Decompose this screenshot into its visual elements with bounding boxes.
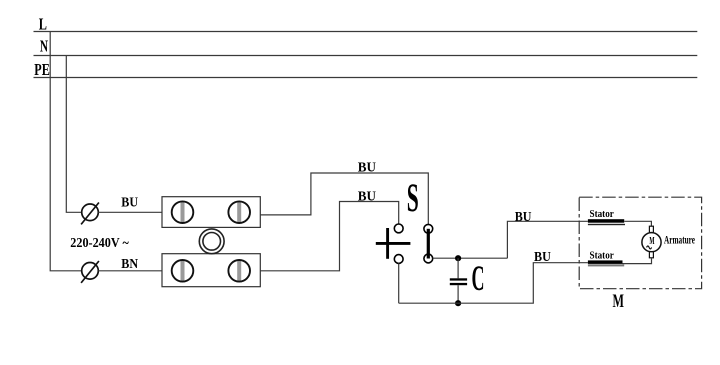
motor enclosure box	[579, 197, 701, 289]
wire coil1 to armature	[624, 221, 651, 226]
wire L to BN line	[50, 32, 81, 271]
svg-text:C: C	[472, 258, 485, 298]
switch right contacts with bridge	[424, 224, 433, 262]
wire pin to top block	[98, 211, 162, 213]
wire armature to coil2	[623, 258, 652, 264]
rail PE	[34, 60, 698, 79]
cord bushing (double circle)	[199, 229, 224, 254]
brush top	[649, 226, 653, 232]
junction node bottom	[455, 300, 461, 306]
svg-text:Stator: Stator	[590, 208, 614, 220]
svg-text:Armature: Armature	[664, 232, 695, 246]
svg-text:BN: BN	[121, 257, 138, 272]
svg-text:BU: BU	[358, 160, 376, 175]
armature motor circle	[642, 233, 661, 252]
svg-text:L: L	[39, 14, 47, 33]
svg-text:M: M	[613, 291, 625, 312]
wire pin to bottom block	[98, 270, 162, 272]
svg-text:220-240V ~: 220-240V ~	[70, 236, 129, 251]
svg-text:S: S	[407, 175, 419, 220]
svg-text:Stator: Stator	[590, 250, 614, 262]
svg-text:BU: BU	[534, 250, 551, 265]
wire bottom block to switch S left contact	[260, 202, 398, 271]
svg-text:N: N	[40, 37, 48, 56]
junction node top	[455, 255, 461, 261]
wire switch left contact down to bottom run	[398, 263, 400, 303]
svg-text:M: M	[649, 235, 655, 247]
rail L	[34, 14, 698, 33]
wire bottom run to stator 2	[399, 263, 588, 304]
terminal block top	[162, 197, 260, 228]
stator coil 1	[588, 219, 625, 225]
svg-text:BU: BU	[515, 210, 532, 225]
svg-text:PE: PE	[34, 60, 50, 79]
switch left contacts	[394, 224, 403, 263]
rail N	[34, 37, 698, 56]
stator coil 2	[588, 260, 624, 266]
brush bottom	[649, 252, 653, 258]
wire top block to switch S right contact	[260, 173, 428, 225]
switch actuator cross	[376, 228, 411, 259]
wire N to BU line	[66, 56, 81, 213]
terminal block bottom	[162, 254, 260, 287]
wire switch right contact to capacitor node	[433, 257, 508, 259]
svg-text:BU: BU	[358, 190, 376, 205]
wire capacitor node to stator 1	[507, 221, 588, 258]
capacitor C	[450, 258, 467, 303]
connector pin bottom (circle-slash)	[81, 261, 99, 283]
connector pin top (circle-slash)	[81, 203, 99, 225]
svg-text:BU: BU	[121, 196, 138, 211]
